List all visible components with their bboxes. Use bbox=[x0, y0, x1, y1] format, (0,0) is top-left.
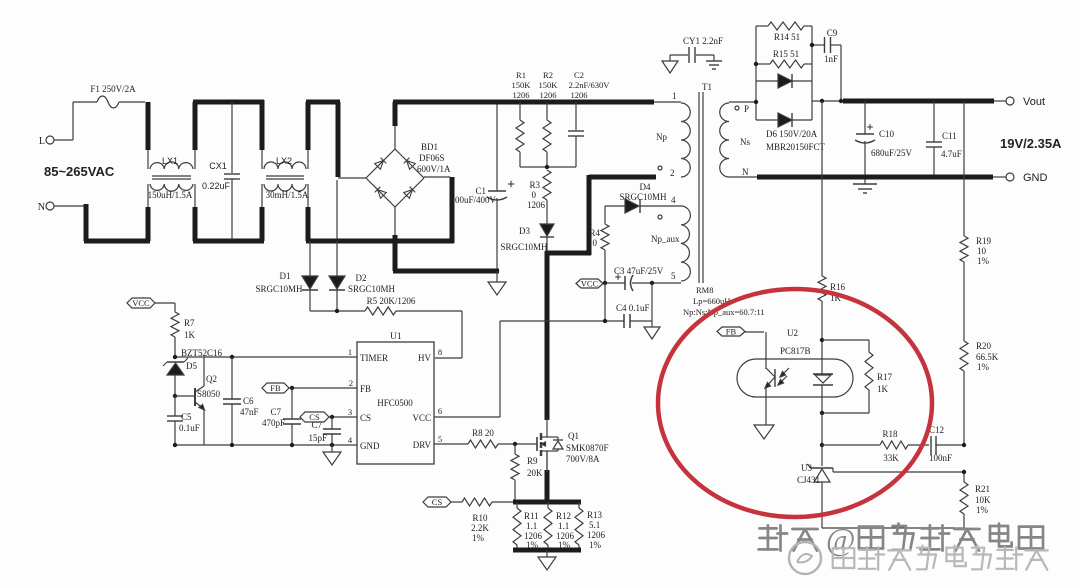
svg-text:1%: 1% bbox=[977, 256, 990, 266]
svg-text:D6 150V/20A: D6 150V/20A bbox=[766, 129, 818, 139]
svg-text:R2: R2 bbox=[543, 70, 553, 80]
svg-text:D4: D4 bbox=[640, 182, 651, 192]
wire N bbox=[54, 205, 86, 207]
transformer T1 aux Np_aux bbox=[651, 195, 690, 281]
svg-text:680uF/25V: 680uF/25V bbox=[871, 148, 913, 158]
svg-text:19V/2.35A: 19V/2.35A bbox=[1000, 136, 1062, 151]
svg-text:T1: T1 bbox=[702, 82, 712, 92]
svg-text:BZT52C16: BZT52C16 bbox=[181, 348, 223, 358]
svg-text:N: N bbox=[742, 167, 749, 177]
wire thick bottom rail B bbox=[193, 239, 264, 244]
svg-text:150uH/1.5A: 150uH/1.5A bbox=[148, 190, 193, 200]
svg-text:SRGC10MH: SRGC10MH bbox=[255, 284, 303, 294]
svg-text:1%: 1% bbox=[977, 362, 990, 372]
resistor R21 bbox=[960, 472, 991, 528]
wire bridge plus to rail bbox=[394, 102, 396, 150]
svg-text:1206: 1206 bbox=[540, 90, 557, 100]
wire L to fuse bbox=[54, 102, 97, 140]
svg-text:1K: 1K bbox=[184, 330, 196, 340]
transformer T1 secondary Ns bbox=[720, 102, 757, 177]
svg-text:1: 1 bbox=[672, 91, 677, 101]
wire bridge AC left bbox=[337, 178, 366, 241]
wire thick primary pin2 to drain bbox=[545, 175, 656, 420]
earth CY1 right bbox=[706, 55, 722, 69]
svg-text:GND: GND bbox=[360, 441, 380, 451]
svg-text:TIMER: TIMER bbox=[360, 353, 388, 363]
svg-text:GND: GND bbox=[1023, 172, 1048, 184]
svg-text:C6: C6 bbox=[243, 396, 254, 406]
net label CS left bbox=[300, 412, 357, 422]
svg-text:1.1: 1.1 bbox=[558, 521, 569, 531]
svg-text:FB: FB bbox=[270, 383, 281, 393]
resistor R12 bbox=[544, 502, 575, 550]
resistor R10 bbox=[462, 498, 513, 543]
svg-text:470pF: 470pF bbox=[262, 418, 285, 428]
capacitor CX1 bbox=[202, 102, 240, 241]
svg-text:C5: C5 bbox=[181, 412, 192, 422]
wire thick source bbox=[545, 451, 550, 504]
svg-text:SRGC10MH: SRGC10MH bbox=[348, 284, 396, 294]
svg-text:0: 0 bbox=[532, 190, 537, 200]
wire bridge AC right bbox=[424, 176, 450, 178]
svg-text:DF06S: DF06S bbox=[419, 153, 445, 163]
transformer T1 core bbox=[699, 82, 712, 283]
svg-text:47nF: 47nF bbox=[240, 407, 259, 417]
svg-text:R13: R13 bbox=[587, 510, 603, 520]
wire thick Vout rail bbox=[820, 99, 994, 103]
wire thick HV rail bbox=[393, 100, 654, 105]
wire thick top rail 2 bbox=[306, 100, 340, 105]
svg-text:CS: CS bbox=[432, 497, 443, 507]
svg-text:100nF: 100nF bbox=[929, 453, 952, 463]
resistor R13 bbox=[575, 502, 606, 550]
svg-text:1%: 1% bbox=[589, 540, 602, 550]
IC U1 HFC0500 bbox=[348, 332, 442, 464]
svg-text:C7: C7 bbox=[311, 420, 322, 430]
svg-text:R20: R20 bbox=[976, 341, 992, 351]
resistor R8 bbox=[434, 428, 537, 448]
svg-text:700V/8A: 700V/8A bbox=[566, 454, 600, 464]
svg-text:Np: Np bbox=[656, 132, 667, 142]
net label VCC aux bbox=[576, 279, 603, 289]
diode D6 top bbox=[756, 74, 812, 88]
wire analog ground rail bbox=[173, 443, 357, 447]
highlight red ellipse bbox=[658, 289, 932, 517]
resistor R20 bbox=[960, 341, 999, 445]
diode D1 bbox=[255, 241, 318, 311]
net label CS bottom bbox=[423, 497, 462, 507]
label RM8 bbox=[683, 285, 765, 317]
fuse F1 bbox=[90, 84, 145, 108]
resistor R17 bbox=[820, 338, 893, 415]
svg-text:S8050: S8050 bbox=[197, 389, 221, 399]
svg-text:2.2nF/630V: 2.2nF/630V bbox=[569, 80, 611, 90]
label 85~265VAC bbox=[44, 164, 115, 179]
inductor LX1 bbox=[148, 102, 195, 241]
terminal Vout bbox=[994, 96, 1045, 108]
svg-text:D3: D3 bbox=[519, 226, 530, 236]
svg-text:R9: R9 bbox=[527, 456, 538, 466]
svg-text:Vout: Vout bbox=[1023, 96, 1045, 108]
resistor R3 bbox=[527, 170, 551, 210]
svg-text:R14 51: R14 51 bbox=[774, 32, 800, 42]
resistor R11 bbox=[513, 502, 543, 550]
svg-text:FB: FB bbox=[726, 327, 737, 337]
resistor R7 bbox=[171, 303, 196, 357]
svg-text:1%: 1% bbox=[976, 505, 989, 515]
svg-text:R1: R1 bbox=[516, 70, 526, 80]
svg-text:R11: R11 bbox=[524, 511, 539, 521]
wire U3 ref bbox=[833, 470, 966, 474]
svg-text:CX1: CX1 bbox=[209, 161, 227, 171]
svg-text:VCC: VCC bbox=[132, 298, 150, 308]
svg-text:R10: R10 bbox=[472, 513, 488, 523]
mosfet Q1 SMK0870F bbox=[537, 418, 609, 472]
svg-text:C9: C9 bbox=[827, 28, 838, 38]
svg-text:30mH/1.5A: 30mH/1.5A bbox=[266, 190, 309, 200]
svg-text:U3: U3 bbox=[801, 463, 812, 473]
svg-text:MBR20150FCT: MBR20150FCT bbox=[766, 142, 826, 152]
ground C4 bbox=[644, 321, 660, 339]
svg-text:HFC0500: HFC0500 bbox=[377, 398, 413, 408]
resistor R18 bbox=[822, 429, 929, 463]
svg-text:RM8: RM8 bbox=[696, 285, 713, 295]
svg-text:C2: C2 bbox=[574, 70, 584, 80]
svg-text:@: @ bbox=[826, 521, 855, 557]
wire bridge minus bbox=[394, 206, 396, 271]
resistor R14 bbox=[756, 22, 812, 42]
phototransistor U2 output bbox=[813, 340, 833, 413]
svg-text:150K: 150K bbox=[512, 80, 532, 90]
wire thick sense bus bottom bbox=[513, 548, 581, 553]
svg-text:U2: U2 bbox=[787, 328, 798, 338]
capacitor C7 15pF bbox=[308, 417, 341, 445]
capacitor C7 470pF bbox=[262, 388, 301, 445]
terminal GND bbox=[993, 172, 1048, 184]
svg-text:R12: R12 bbox=[556, 511, 571, 521]
svg-text:L: L bbox=[39, 136, 45, 147]
wire thick minus bus bbox=[393, 269, 499, 274]
svg-text:1206: 1206 bbox=[587, 530, 606, 540]
svg-text:1K: 1K bbox=[877, 384, 889, 394]
svg-text:CJ431: CJ431 bbox=[797, 475, 820, 485]
svg-text:LX2: LX2 bbox=[276, 156, 292, 166]
capacitor C5 bbox=[167, 396, 200, 445]
diode D4 bbox=[605, 182, 681, 213]
resistor R4 bbox=[589, 206, 609, 283]
svg-text:CS: CS bbox=[360, 413, 371, 423]
svg-text:LX1: LX1 bbox=[162, 156, 178, 166]
ground U1 bbox=[323, 445, 341, 465]
capacitor C2 bbox=[568, 70, 610, 167]
capacitor CY1 bbox=[670, 36, 723, 63]
transformer T1 primary Np bbox=[654, 91, 690, 178]
terminal L bbox=[39, 136, 54, 147]
svg-text:PC817B: PC817B bbox=[780, 346, 811, 356]
svg-text:R4: R4 bbox=[589, 228, 600, 238]
svg-text:5: 5 bbox=[438, 434, 442, 444]
svg-text:CY1 2.2nF: CY1 2.2nF bbox=[683, 36, 723, 46]
svg-text:R5 20K/1206: R5 20K/1206 bbox=[367, 296, 416, 306]
svg-text:SRGC10MH: SRGC10MH bbox=[500, 242, 548, 252]
wire R5 to HV bbox=[396, 311, 462, 358]
resistor R9 bbox=[511, 444, 543, 502]
svg-text:1206: 1206 bbox=[527, 200, 546, 210]
resistor R16 bbox=[818, 101, 846, 340]
svg-text:R19: R19 bbox=[976, 236, 992, 246]
net label FB secondary bbox=[717, 327, 764, 337]
diode D3 bbox=[500, 200, 554, 253]
capacitor C1 bbox=[450, 102, 514, 269]
svg-text:D5: D5 bbox=[186, 361, 197, 371]
transistor Q2 S8050 bbox=[175, 357, 221, 445]
resistor R19 bbox=[960, 101, 992, 341]
wire thick top rail 1 bbox=[193, 100, 264, 105]
svg-text:R18: R18 bbox=[882, 429, 898, 439]
svg-text:1.1: 1.1 bbox=[526, 521, 537, 531]
wire secondary feedback ground bbox=[822, 527, 964, 529]
svg-text:VCC: VCC bbox=[581, 279, 599, 289]
node snubber bbox=[520, 165, 576, 169]
resistor R5 bbox=[365, 296, 416, 315]
optocoupler U2 bbox=[737, 328, 853, 397]
wire thick bar bridge right bbox=[450, 177, 455, 243]
capacitor C11 bbox=[926, 101, 962, 179]
capacitor C10 bbox=[855, 101, 913, 177]
resistor R2 bbox=[539, 70, 559, 167]
svg-text:1%: 1% bbox=[472, 533, 485, 543]
svg-text:HV: HV bbox=[418, 353, 431, 363]
svg-text:C7: C7 bbox=[270, 407, 281, 417]
svg-text:5: 5 bbox=[671, 271, 676, 281]
svg-text:1206: 1206 bbox=[513, 90, 530, 100]
wire thick sense bus top bbox=[513, 500, 581, 505]
svg-text:150K: 150K bbox=[539, 80, 559, 90]
svg-text:66.5K: 66.5K bbox=[976, 352, 999, 362]
svg-text:0: 0 bbox=[593, 238, 598, 248]
svg-text:100uF/400V: 100uF/400V bbox=[450, 195, 496, 205]
ground primary minus bbox=[488, 269, 506, 295]
capacitor C6 bbox=[223, 357, 259, 445]
svg-text:8: 8 bbox=[438, 347, 442, 357]
svg-text:P: P bbox=[744, 104, 749, 114]
ground CY1 left bbox=[662, 55, 678, 73]
ground U2 LED bbox=[754, 425, 774, 439]
svg-text:BD1: BD1 bbox=[421, 142, 438, 152]
svg-text:Q2: Q2 bbox=[206, 374, 217, 384]
wire VCC pin6 bbox=[434, 321, 500, 417]
label 19V/2.35A bbox=[1000, 136, 1062, 151]
svg-text:0.1uF: 0.1uF bbox=[179, 423, 200, 433]
svg-text:1: 1 bbox=[348, 347, 352, 357]
svg-text:FB: FB bbox=[360, 384, 371, 394]
svg-text:4.7uF: 4.7uF bbox=[941, 149, 962, 159]
watermark zhihu text bbox=[759, 521, 1043, 557]
svg-text:1206: 1206 bbox=[571, 90, 588, 100]
svg-text:R15 51: R15 51 bbox=[773, 49, 799, 59]
net label VCC left bbox=[127, 298, 175, 308]
svg-text:4: 4 bbox=[671, 195, 676, 205]
svg-text:R8 20: R8 20 bbox=[472, 428, 494, 438]
net label FB left bbox=[262, 383, 357, 393]
wire D6 buses bbox=[754, 26, 843, 120]
svg-text:10: 10 bbox=[977, 246, 987, 256]
diode D6 bottom bbox=[756, 113, 812, 127]
ground sense bbox=[538, 550, 556, 570]
svg-text:85~265VAC: 85~265VAC bbox=[44, 164, 115, 179]
svg-text:2.2K: 2.2K bbox=[471, 523, 489, 533]
bridge rectifier BD1 bbox=[366, 142, 451, 207]
capacitor C3 bbox=[603, 266, 681, 291]
svg-text:D2: D2 bbox=[356, 273, 367, 283]
svg-text:Ns: Ns bbox=[740, 137, 750, 147]
svg-text:R21: R21 bbox=[975, 484, 990, 494]
svg-text:U1: U1 bbox=[390, 332, 402, 342]
wire thick N corner bbox=[84, 204, 89, 241]
svg-text:C11: C11 bbox=[942, 131, 957, 141]
svg-text:2: 2 bbox=[349, 378, 353, 388]
svg-text:600V/1A: 600V/1A bbox=[417, 164, 451, 174]
LED U2 bbox=[765, 332, 789, 425]
diode D2 bbox=[329, 241, 396, 311]
resistor R1 bbox=[512, 70, 532, 167]
svg-text:C4 0.1uF: C4 0.1uF bbox=[616, 303, 650, 313]
svg-text:F1 250V/2A: F1 250V/2A bbox=[90, 84, 136, 94]
svg-text:D1: D1 bbox=[280, 271, 291, 281]
svg-text:5.1: 5.1 bbox=[589, 520, 600, 530]
wire opto to U3 bbox=[820, 413, 824, 466]
resistor R15 bbox=[756, 49, 812, 68]
wire thick GND rail bbox=[757, 175, 993, 180]
svg-text:C3 47uF/25V: C3 47uF/25V bbox=[614, 266, 664, 276]
wire thick bar to bridge bbox=[336, 102, 341, 177]
wire TIMER line bbox=[173, 355, 357, 359]
svg-text:N: N bbox=[38, 202, 45, 213]
svg-text:10K: 10K bbox=[975, 495, 991, 505]
wire thick bottom rail C bbox=[306, 239, 454, 244]
shunt regulator U3 CJ431 bbox=[797, 463, 833, 528]
svg-text:15pF: 15pF bbox=[308, 433, 327, 443]
svg-text:3: 3 bbox=[348, 407, 352, 417]
svg-text:VCC: VCC bbox=[412, 413, 431, 423]
watermark outline text bbox=[833, 546, 1048, 570]
svg-text:R3: R3 bbox=[529, 180, 540, 190]
capacitor C9 bbox=[812, 28, 841, 101]
svg-text:Np_aux: Np_aux bbox=[651, 234, 680, 244]
wire thick bottom rail A bbox=[84, 239, 150, 244]
svg-text:Np:Ns:Np_aux=60.7:11: Np:Ns:Np_aux=60.7:11 bbox=[683, 307, 765, 317]
svg-text:R16: R16 bbox=[830, 282, 846, 292]
terminal N bbox=[38, 202, 54, 213]
svg-text:Q1: Q1 bbox=[568, 431, 579, 441]
svg-text:0.22uF: 0.22uF bbox=[202, 181, 231, 191]
capacitor C12 bbox=[929, 425, 966, 463]
label D6 bbox=[766, 129, 826, 152]
svg-text:SMK0870F: SMK0870F bbox=[566, 443, 609, 453]
svg-text:33K: 33K bbox=[883, 453, 899, 463]
zener D5 BZT52C16 bbox=[163, 348, 223, 396]
capacitor C4 bbox=[500, 283, 652, 328]
svg-text:R7: R7 bbox=[184, 318, 195, 328]
svg-text:C10: C10 bbox=[879, 129, 895, 139]
node D1 D2 junction bbox=[310, 309, 365, 313]
svg-text:SRGC10MH: SRGC10MH bbox=[619, 192, 667, 202]
svg-text:DRV: DRV bbox=[413, 440, 432, 450]
earth C10 bbox=[853, 175, 877, 193]
svg-text:1nF: 1nF bbox=[824, 54, 838, 64]
svg-text:R17: R17 bbox=[877, 372, 893, 382]
svg-text:2: 2 bbox=[670, 168, 675, 178]
node Q2 base bbox=[173, 394, 177, 398]
inductor LX2 bbox=[262, 100, 309, 241]
svg-text:20K: 20K bbox=[527, 468, 543, 478]
svg-text:6: 6 bbox=[438, 406, 442, 416]
watermark logo circle bbox=[789, 542, 821, 574]
